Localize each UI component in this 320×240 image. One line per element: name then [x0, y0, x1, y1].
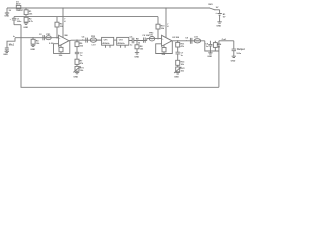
svg-text:1u: 1u: [130, 44, 133, 46]
ground (zobel): [207, 51, 212, 58]
diode D1 on rail: [16, 2, 24, 12]
svg-text:4: 4: [64, 20, 66, 23]
ground (RV1): [73, 72, 79, 78]
resistor R8: [135, 39, 144, 53]
capacitor C2: [39, 34, 45, 40]
speaker LS1: [194, 37, 201, 43]
svg-text:10k: 10k: [140, 48, 144, 50]
resistor R5 (feedback): [59, 45, 63, 57]
svg-text:CF2: CF2: [119, 40, 124, 42]
svg-text:+: +: [10, 19, 12, 21]
svg-text:4: 4: [167, 25, 169, 28]
svg-text:GND: GND: [174, 76, 179, 78]
capacitor C5: [129, 36, 147, 46]
svg-text:455kHz: 455kHz: [118, 42, 125, 45]
ground (RV2): [174, 73, 180, 79]
wire step up to U2 input: [147, 39, 162, 41]
filter block U2: [97, 37, 114, 47]
svg-text:1N4007: 1N4007: [16, 9, 24, 12]
wire input line: [15, 37, 59, 39]
svg-text:9V: 9V: [9, 10, 12, 12]
svg-text:GND: GND: [23, 27, 28, 29]
svg-text:47k: 47k: [80, 62, 84, 65]
svg-text:1.1V: 1.1V: [91, 44, 96, 46]
svg-text:455kHz: 455kHz: [102, 42, 109, 45]
capacitor C7: [176, 52, 185, 60]
svg-text:U2 386: U2 386: [172, 37, 180, 39]
svg-text:10k: 10k: [161, 28, 165, 30]
resistor R14: [213, 41, 222, 51]
resistor R11: [176, 41, 185, 52]
svg-text:386: 386: [64, 35, 68, 37]
svg-text:10k: 10k: [36, 43, 40, 45]
resistor R6: [75, 40, 84, 52]
resistor R10 (bias of U2): [156, 17, 165, 40]
svg-text:9V: 9V: [223, 17, 226, 19]
ground (output): [231, 56, 236, 62]
svg-text:1u: 1u: [80, 55, 83, 57]
svg-text:4.7k: 4.7k: [29, 20, 34, 23]
op-amp U2: [162, 35, 180, 46]
capacitor C6: [142, 35, 150, 43]
switch SW1: [208, 4, 219, 10]
battery B1: [215, 10, 226, 22]
capacitor C4: [82, 35, 88, 42]
capacitor C10 output: [232, 41, 245, 56]
probe P3: [149, 33, 155, 41]
probe P2: [90, 36, 96, 46]
svg-text:SW1: SW1: [208, 4, 213, 6]
svg-text:1u: 1u: [181, 55, 184, 57]
resistor R2: [24, 17, 34, 24]
svg-text:+: +: [59, 38, 61, 40]
svg-text:9V: 9V: [216, 7, 219, 9]
svg-text:50k: 50k: [59, 55, 63, 57]
resistor R7: [75, 59, 84, 66]
wire bias node: [14, 16, 158, 18]
svg-text:GND: GND: [4, 16, 9, 18]
capacitor C8: [185, 37, 192, 43]
svg-text:10: 10: [218, 47, 221, 49]
probe P1: [46, 34, 54, 45]
svg-text:GND: GND: [73, 76, 78, 78]
svg-text:PR1: PR1: [46, 34, 51, 36]
ground (R2): [23, 23, 28, 29]
resistor R12 (feedback): [162, 45, 166, 56]
wire power pin U2: [165, 7, 167, 9]
svg-text:+: +: [215, 12, 217, 15]
wire feedback U1: [54, 41, 70, 54]
svg-text:Mic1: Mic1: [9, 43, 15, 46]
ground (battery): [216, 22, 221, 28]
wire top supply rail: [7, 7, 210, 9]
zobel network wires: [205, 41, 219, 88]
svg-text:GND: GND: [207, 56, 212, 58]
wire to output: [219, 40, 234, 42]
svg-text:GND: GND: [30, 49, 35, 51]
capacitor C9: [205, 41, 212, 51]
wire chain after U2: [172, 40, 205, 42]
resistor R3 (bias of U1): [55, 17, 64, 39]
ground (mic): [3, 51, 9, 56]
svg-text:GND: GND: [3, 54, 8, 56]
filter block U3: [117, 37, 129, 47]
wire power pin U1: [62, 7, 64, 9]
resistor R4: [31, 38, 40, 45]
svg-text:10k: 10k: [80, 70, 84, 72]
svg-text:+: +: [162, 38, 164, 40]
resistor R13: [176, 60, 185, 67]
ground (left end of rail): [4, 8, 11, 18]
node rail/R1: [25, 7, 27, 9]
svg-text:10k: 10k: [29, 14, 33, 16]
potentiometer RV2: [174, 67, 185, 73]
svg-text:100u: 100u: [17, 21, 22, 23]
potentiometer RV1: [73, 66, 84, 72]
svg-text:GND: GND: [231, 60, 236, 62]
svg-text:Out1: Out1: [222, 38, 228, 41]
wire bottom ground bus: [21, 25, 219, 88]
wire feedback U2: [156, 41, 173, 54]
ground (R4): [30, 45, 35, 51]
svg-text:10k: 10k: [181, 71, 185, 73]
wire chain after U1: [69, 39, 102, 42]
capacitor C1: [10, 17, 22, 25]
svg-text:CF1: CF1: [104, 40, 109, 42]
op-amp U1: [59, 35, 70, 46]
wire between blocks: [114, 39, 117, 41]
resistor R1: [24, 8, 33, 17]
svg-text:1k: 1k: [138, 43, 141, 45]
svg-text:0.6V: 0.6V: [149, 35, 154, 37]
svg-text:GND: GND: [134, 57, 139, 59]
svg-text:100u: 100u: [236, 53, 241, 55]
svg-text:1u: 1u: [206, 46, 209, 48]
capacitor C3: [75, 52, 84, 59]
svg-text:50k: 50k: [162, 54, 166, 56]
svg-text:10k: 10k: [80, 46, 84, 48]
svg-text:GND: GND: [216, 26, 221, 28]
ground (R8): [134, 53, 139, 59]
svg-text:Output: Output: [237, 48, 245, 51]
svg-text:C2: C2: [39, 34, 43, 36]
microphone Mic1: [5, 36, 16, 51]
svg-text:10k: 10k: [181, 64, 185, 66]
